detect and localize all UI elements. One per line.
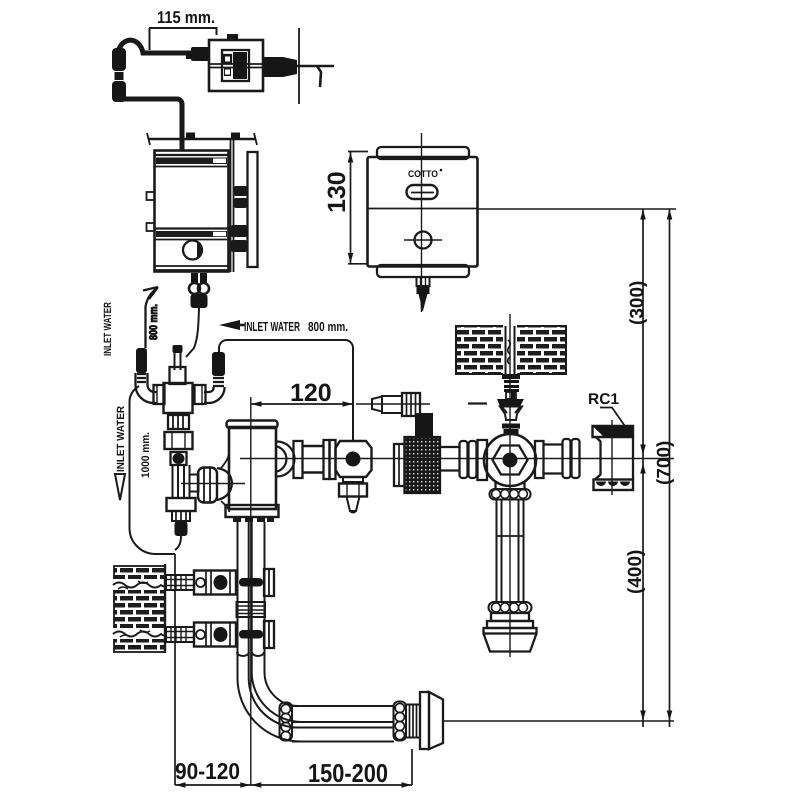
- wall rod channel: [503, 325, 517, 375]
- rod band: [504, 429, 519, 435]
- dimension 120 line: [251, 403, 353, 405]
- svg-text:(700): (700): [654, 441, 675, 485]
- angle fitting octagon: [336, 441, 372, 477]
- solenoid cord: [175, 536, 181, 550]
- controller mounting rail: [148, 138, 256, 140]
- controller clamp knob upper: [234, 186, 247, 208]
- inlet fitting pipe: [382, 396, 402, 413]
- stop valve upper outlet bar: [239, 578, 263, 587]
- outlet centerline: [443, 720, 674, 722]
- flush valve center horizontal centerline: [181, 483, 245, 485]
- ball valve left nut: [394, 444, 405, 486]
- elbow bends to horizontal: [238, 653, 306, 742]
- controller cable connector below: [191, 273, 207, 283]
- valve flange rings right: [563, 439, 571, 478]
- wall bricks upper right: [456, 326, 566, 374]
- adapter box mid line: [209, 64, 263, 68]
- label RC1: [588, 391, 619, 408]
- label inlet water left upper (vertical): [102, 302, 114, 356]
- svg-text:90-120: 90-120: [175, 758, 240, 784]
- dimension 115 mm label: [157, 8, 215, 27]
- wall break row 2: [112, 628, 166, 639]
- cable connector upper: [112, 48, 126, 102]
- label 800 mm vertical: [148, 304, 160, 340]
- controller wire to solenoid: [186, 308, 199, 357]
- stub line left of rod nut: [468, 402, 487, 404]
- svg-text:120: 120: [290, 379, 332, 407]
- wall break row 1: [112, 579, 166, 590]
- flush valve right hex: [493, 446, 528, 475]
- controller bottom double line: [155, 266, 229, 270]
- wall line right of box: [298, 28, 300, 104]
- threaded section: [406, 705, 420, 738]
- angle fitting neck: [343, 477, 363, 482]
- valve flange rings left: [460, 441, 468, 478]
- wall right edge: [164, 564, 166, 653]
- flush valve center bottom flange: [226, 505, 279, 517]
- sensor panel cable: [417, 277, 430, 286]
- upper bead ring: [490, 489, 531, 500]
- solenoid tee left cap: [154, 385, 165, 404]
- valve right shoulder: [535, 441, 544, 478]
- stop valve lower flange: [264, 621, 274, 648]
- svg-text:INLET WATER: INLET WATER: [102, 302, 114, 356]
- bell band 1: [491, 613, 529, 621]
- controller lower band: [155, 227, 229, 229]
- probe wire right: [297, 65, 334, 67]
- label inlet water left lower (vertical): [115, 406, 127, 472]
- RC1 wall connector top flange: [593, 426, 634, 437]
- flush valve right dark dot: [503, 453, 518, 468]
- solenoid tee right cap: [195, 385, 206, 404]
- label (700) rotated: [654, 441, 675, 485]
- right dimension outer line: [669, 209, 671, 727]
- angle fitting spout: [347, 497, 360, 513]
- sensor panel divider: [368, 208, 478, 210]
- stop valve upper body: [194, 571, 236, 595]
- adapter box plug right: [263, 57, 297, 77]
- controller clamp knob lower: [231, 225, 247, 252]
- flush valve center body: [229, 427, 276, 509]
- inlet water up arrow: [143, 287, 158, 299]
- 1000mm routing loop: [130, 386, 176, 554]
- sensor window: [407, 185, 438, 199]
- svg-text:(400): (400): [625, 550, 646, 594]
- bead ring right: [394, 702, 407, 741]
- inlet elbow block: [415, 413, 433, 439]
- valve lower neck: [496, 482, 525, 489]
- flush valve right pipe: [303, 446, 325, 473]
- dimension 130 text (rotated): [323, 171, 351, 213]
- ball valve body dark: [405, 437, 441, 493]
- bead ring left: [280, 703, 293, 741]
- valve centerline vertical: [250, 397, 252, 785]
- inlet fitting barb: [372, 397, 382, 412]
- valve left shoulder: [478, 440, 488, 480]
- sensor panel top lip: [377, 147, 469, 159]
- controller cable gland circle: [183, 241, 202, 260]
- dimension 115 mm line: [149, 27, 217, 50]
- flush valve right double ring: [324, 440, 330, 479]
- stop valve upper nipple: [166, 575, 194, 590]
- svg-text:INLET WATER: INLET WATER: [244, 319, 300, 334]
- dimension 90-120 text: [175, 758, 240, 784]
- svg-text:150-200: 150-200: [308, 758, 388, 788]
- flush valve right port shoulder: [277, 442, 295, 477]
- sensor cable lower run: [119, 99, 182, 150]
- RC1 leader: [600, 408, 625, 426]
- flush valve right body circle: [484, 434, 536, 486]
- sensor panel centerline: [421, 133, 423, 312]
- solenoid left hose elbow: [136, 373, 158, 403]
- flush valve right port ring: [294, 441, 303, 478]
- rod wing nut: [497, 399, 524, 407]
- probe pin: [317, 66, 321, 87]
- svg-text:800 mm.: 800 mm.: [308, 319, 348, 334]
- rail screw nubs: [186, 133, 240, 140]
- adapter box top nub: [227, 34, 238, 40]
- stop valve lower nipple: [166, 627, 194, 642]
- bell plate: [484, 628, 537, 634]
- bell cone: [484, 634, 537, 652]
- stop valve upper flange: [264, 569, 274, 596]
- hollow down arrow: [115, 474, 125, 500]
- right dimension inner line: [642, 209, 644, 727]
- controller left tabs: [147, 192, 155, 200]
- RC1 wall connector body: [595, 437, 633, 480]
- controller box body: [155, 151, 229, 272]
- pipe coupling ribs: [237, 602, 266, 617]
- right down pipe: [497, 500, 524, 603]
- label (300) rotated: [627, 281, 648, 325]
- bell band 2: [487, 621, 533, 628]
- rod funnel: [500, 407, 522, 421]
- stop valve lower body: [194, 623, 236, 647]
- solenoid right hose elbow: [204, 387, 225, 403]
- angle fitting dark dot: [346, 452, 361, 467]
- solenoid tee center nut: [164, 383, 193, 413]
- solenoid ribbed collar: [168, 415, 189, 429]
- svg-text:130: 130: [323, 171, 351, 213]
- lower hose lines: [292, 728, 394, 742]
- wall bricks lower left: [114, 566, 165, 652]
- solenoid taper ribs: [172, 511, 190, 521]
- controller side bracket lines: [231, 139, 234, 272]
- solenoid left hose connector: [136, 348, 147, 373]
- dimension 150-200 text: [308, 758, 388, 788]
- flush valve center body cap: [227, 421, 278, 429]
- flush valve center feet: [233, 517, 274, 523]
- label (400) rotated: [625, 550, 646, 594]
- stop valve lower outlet bar: [239, 630, 263, 639]
- svg-text:1000 mm.: 1000 mm.: [140, 432, 152, 478]
- rod threads: [504, 380, 519, 383]
- solenoid hex nut 2: [167, 498, 196, 511]
- flush valve left port shoulder: [217, 468, 232, 500]
- inlet centerline: [356, 403, 430, 405]
- solenoid down pipe: [173, 465, 190, 498]
- RC1 wall connector bottom flange: [594, 480, 634, 491]
- adapter box plug left: [186, 47, 209, 61]
- controller side plate: [248, 152, 258, 267]
- rod centerline: [509, 314, 511, 657]
- outlet flange plate: [420, 692, 429, 749]
- supply rod through wall: [506, 326, 515, 374]
- svg-text:RC1: RC1: [588, 391, 619, 408]
- inlet water arrow (horizontal note): [219, 320, 240, 330]
- RC1 connector scalloped base: [596, 482, 630, 487]
- controller top band: [155, 154, 229, 156]
- reference line from panel mid: [478, 208, 677, 210]
- dimension 130 line: [348, 152, 368, 264]
- inlet fitting nut: [402, 393, 420, 416]
- COTTO logo: [408, 169, 442, 180]
- svg-text:115 mm.: 115 mm.: [157, 8, 215, 27]
- solenoid dark tip: [175, 521, 188, 536]
- svg-text:COTTO: COTTO: [408, 169, 438, 180]
- dimension 120 text: [290, 379, 332, 407]
- solenoid top stem: [175, 348, 181, 370]
- solenoid right hose connector (from 800mm loop): [212, 352, 225, 376]
- solenoid hex nut 1: [165, 432, 193, 449]
- flush valve left port nut: [198, 468, 217, 503]
- lower bead ring: [489, 602, 532, 613]
- label INLET WATER 800 mm: [244, 319, 348, 334]
- rod collar: [502, 374, 520, 379]
- label 1000 mm vertical: [140, 432, 152, 478]
- solenoid collar with ball: [171, 452, 187, 465]
- pipe ball valve to flush valve: [440, 447, 460, 471]
- bottom dimension line: [175, 784, 412, 786]
- wall face extension line: [174, 554, 176, 785]
- valve horizontal centerline: [240, 458, 674, 460]
- sensor panel face: [368, 157, 478, 267]
- svg-text:INLET WATER: INLET WATER: [115, 406, 127, 472]
- svg-text:800 mm.: 800 mm.: [148, 304, 160, 340]
- 800mm routing loop: [219, 340, 353, 441]
- adapter box body: [209, 40, 263, 91]
- outlet cone: [429, 692, 443, 749]
- RC1 vertical centerline: [611, 420, 613, 495]
- adapter box inner terminal: [222, 50, 249, 81]
- pipe to RC1: [544, 445, 564, 474]
- rod stem: [506, 392, 516, 399]
- down pipes from valve: [238, 522, 265, 655]
- upper hose lines: [292, 706, 394, 722]
- flush valve left port nipple: [190, 475, 199, 492]
- sensor cable arch: [118, 40, 206, 56]
- solenoid stem nut: [170, 367, 186, 384]
- svg-text:(300): (300): [627, 281, 648, 325]
- rod disc: [502, 424, 520, 429]
- sensor panel screw circle: [415, 232, 432, 249]
- angle fitting hex: [339, 484, 367, 497]
- pipe sockets below: [237, 652, 264, 656]
- sensor panel bottom lip: [377, 265, 469, 277]
